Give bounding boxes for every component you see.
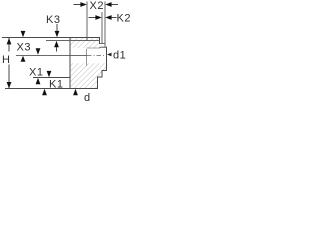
fitting body outline (hatched cross-section) <box>70 38 107 89</box>
label K2 <box>117 12 131 24</box>
dimension H line <box>8 38 10 89</box>
dimension K2 left leader and arrow <box>89 15 102 20</box>
extension line x87 vertical <box>86 2 88 42</box>
dimension X2 right arrow and leader <box>105 2 118 7</box>
label d with arrow <box>73 89 91 104</box>
internal socket line y40.5 <box>46 40 100 42</box>
dimension K2 right arrow and leader <box>105 15 116 20</box>
internal shelf line y43.5 <box>100 43 105 45</box>
svg-text:X1: X1 <box>29 67 43 79</box>
step pocket white region <box>100 44 107 48</box>
dimension K1 top arrow <box>47 71 52 77</box>
svg-text:d1: d1 <box>113 49 126 61</box>
internal bore top line <box>87 47 101 49</box>
centerline dash-dot through fitting <box>87 54 107 56</box>
dimension K3 bottom arrow <box>54 41 59 52</box>
svg-text:K1: K1 <box>49 78 63 90</box>
dimension H top arrow <box>7 38 12 44</box>
svg-text:K3: K3 <box>46 14 60 26</box>
svg-text:X3: X3 <box>17 42 31 54</box>
dimension H bottom arrow <box>7 82 12 88</box>
svg-text:H: H <box>2 54 10 66</box>
svg-text:d: d <box>84 92 91 102</box>
dimension X3 top arrow <box>21 31 26 37</box>
dimension X1 top arrow <box>36 48 41 54</box>
bore (white band inside fitting) <box>71 48 107 64</box>
svg-text:X2: X2 <box>90 0 104 12</box>
extension line bottom y88.5 <box>5 88 70 90</box>
internal shoulder line vertical <box>86 49 88 66</box>
label H <box>2 54 10 66</box>
label X1 <box>29 67 43 79</box>
label K3 <box>46 14 60 26</box>
dimension K1 bottom arrow <box>42 89 47 95</box>
label K1 <box>49 78 63 90</box>
label X3 <box>17 42 31 54</box>
dimension X1 bottom arrow <box>36 78 41 84</box>
dimension X3 bottom arrow <box>21 56 26 62</box>
dimension K3 leader <box>56 24 58 32</box>
label d1 with arrow <box>107 49 126 61</box>
extension line step y77.5 <box>33 77 70 79</box>
extension line x102 vertical <box>101 12 103 44</box>
collar bottom line y47 <box>100 46 107 48</box>
label X2 <box>90 0 104 12</box>
dimension K3 top arrow <box>55 31 60 37</box>
extension line x105 vertical <box>104 2 106 47</box>
svg-text:K2: K2 <box>117 12 131 24</box>
centerline left extension <box>16 54 87 56</box>
extension line top edge y37.5 <box>2 37 70 39</box>
dimension X2 left leader and arrow <box>74 2 87 7</box>
